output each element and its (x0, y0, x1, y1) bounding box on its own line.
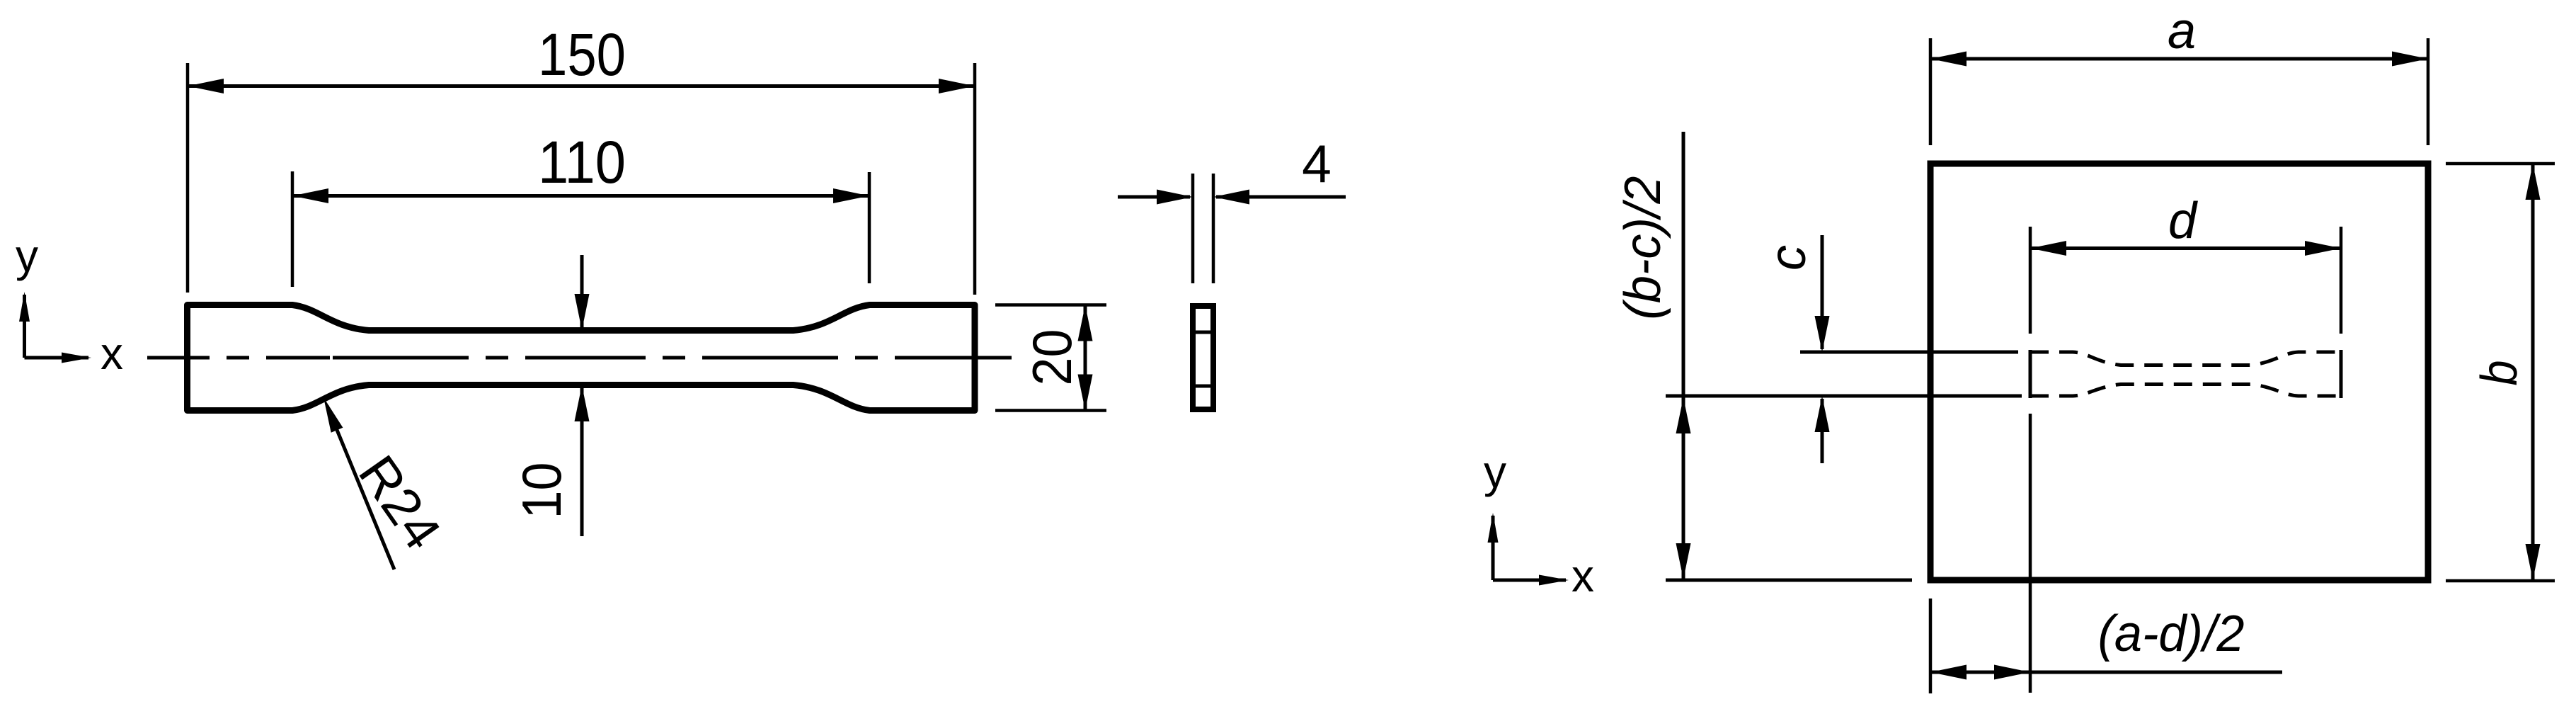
svg-text:b: b (2471, 361, 2528, 386)
svg-text:110: 110 (538, 129, 626, 195)
svg-text:4: 4 (1302, 134, 1332, 193)
svg-text:y: y (1484, 446, 1506, 497)
svg-text:20: 20 (1021, 329, 1083, 386)
svg-text:y: y (16, 230, 38, 281)
svg-text:(a-d)/2: (a-d)/2 (2098, 606, 2245, 662)
svg-text:150: 150 (538, 21, 626, 88)
svg-text:R24: R24 (348, 445, 452, 560)
svg-text:x: x (1572, 550, 1594, 601)
svg-text:x: x (101, 328, 123, 379)
svg-text:c: c (1760, 245, 1816, 271)
svg-text:d: d (2168, 193, 2198, 249)
svg-text:10: 10 (510, 463, 573, 519)
svg-text:a: a (2168, 3, 2196, 59)
svg-text:(b-c)/2: (b-c)/2 (1615, 176, 1671, 320)
